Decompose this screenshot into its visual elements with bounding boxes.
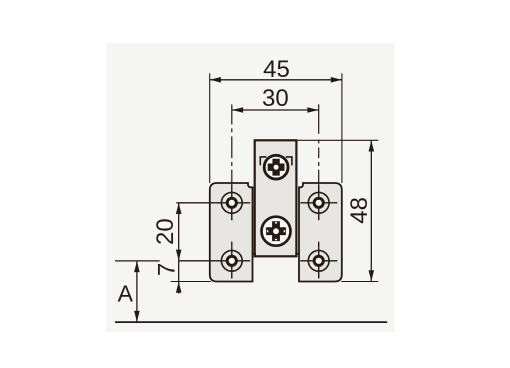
top screw: phillips cross: [268, 159, 285, 176]
svg-text:20: 20: [152, 218, 179, 245]
dim A: top extension line: [115, 260, 160, 262]
dim 45: left extension line: [209, 73, 211, 183]
hole bottom-right: crosshair: [300, 243, 337, 278]
dim 20: dimension line: [178, 203, 180, 261]
drawing panel background: [106, 43, 395, 332]
top screw: head circle: [264, 155, 288, 179]
dim 48: dimension line: [370, 140, 372, 281]
svg-text:48: 48: [346, 197, 373, 224]
svg-text:7: 7: [153, 263, 180, 276]
dim 45: dimension line: [210, 79, 342, 81]
bridge step right of tab bottom: [295, 253, 299, 255]
dim 48: bottom arrow: [369, 270, 375, 281]
dim 20: bottom arrow: [176, 250, 182, 261]
dim 45: right extension line: [341, 73, 343, 183]
dim 7: dimension line with outside arrow tail: [178, 261, 180, 294]
dim 48: top extension line: [298, 139, 379, 141]
hole top-left: crosshair: [176, 185, 250, 220]
dim 20: top arrow: [176, 203, 182, 214]
hole bottom-left: circles: [221, 250, 242, 271]
hole top-left: circles: [221, 192, 242, 213]
dim 7: outside arrow pointing up: [176, 282, 182, 293]
dim 48: top arrow: [369, 141, 375, 152]
hole top-right: crosshair: [300, 185, 337, 220]
dim A: bottom arrow: [134, 311, 140, 322]
hole bottom-left: crosshair: [179, 243, 251, 278]
dim 30: left arrow: [232, 107, 243, 113]
middle screw: head circle: [262, 217, 291, 246]
dim 45: right arrow: [331, 77, 342, 83]
hole bottom-right: circles: [308, 250, 329, 271]
middle screw: cross tip notches: [267, 222, 285, 240]
right plate (fixed leaf, right wing): [299, 183, 342, 282]
dim 45: left arrow: [210, 77, 221, 83]
svg-text:45: 45: [263, 56, 290, 83]
centre line, left hole column: [231, 104, 233, 278]
left plate (fixed leaf, left wing): [210, 183, 253, 282]
svg-text:30: 30: [262, 85, 289, 112]
dim 7: bottom extension line: [171, 281, 211, 283]
dim A: top arrow: [134, 261, 140, 272]
dim 30: right arrow: [307, 107, 318, 113]
top screw: washer bracket left: [260, 156, 267, 165]
top screw: washer bracket right: [286, 156, 293, 165]
top screw: centre dot: [274, 165, 279, 170]
middle screw: phillips cross: [266, 221, 286, 241]
dim 30: dimension line: [232, 109, 319, 111]
centre line, right hole column: [318, 104, 320, 278]
dim A: dimension line: [136, 261, 138, 322]
svg-text:A: A: [118, 281, 134, 307]
dim 48: bottom extension line: [341, 281, 378, 283]
hole top-right: circles: [308, 192, 329, 213]
centre tab (moving leaf): [255, 140, 297, 256]
ground / datum line: [115, 321, 387, 323]
bridge step left of tab bottom: [252, 253, 256, 255]
middle screw: centre dot: [273, 228, 279, 234]
